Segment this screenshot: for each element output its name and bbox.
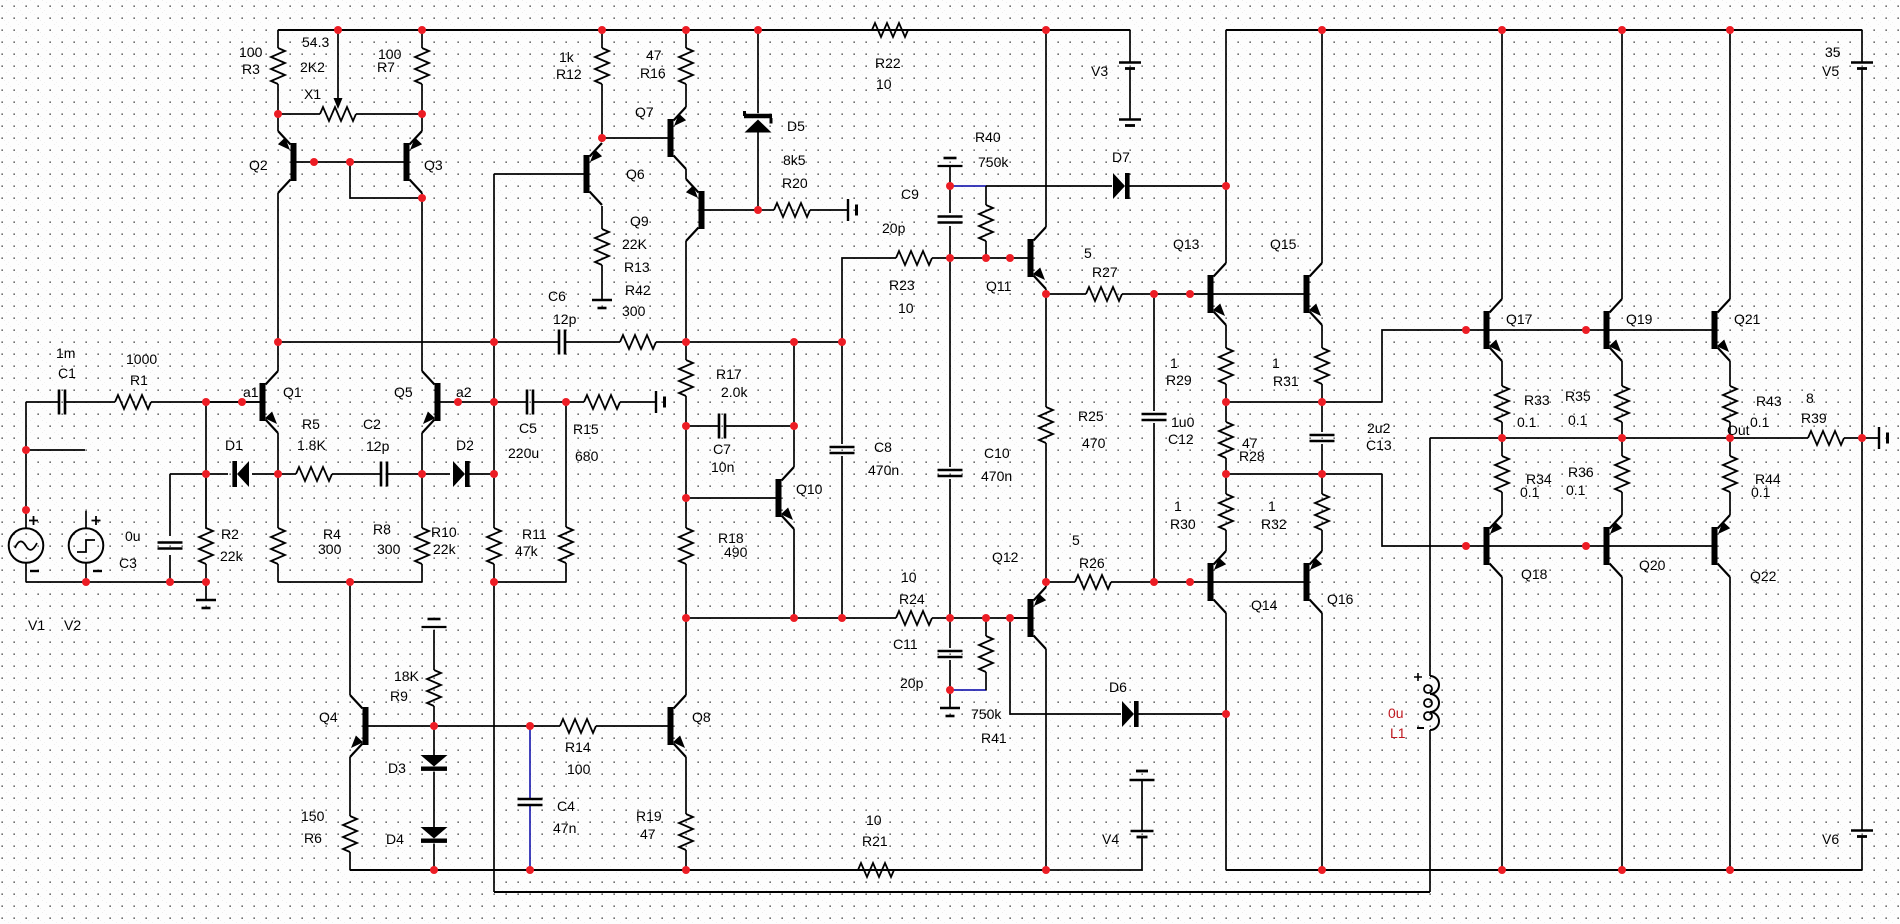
wire R15 right lead: [620, 401, 656, 403]
resistor R32: [1315, 494, 1329, 530]
wire RE top 2 to out rail: [1621, 422, 1623, 438]
resistor R25: [1039, 407, 1053, 443]
wire Q12 base: [1010, 617, 1028, 619]
wire Q6 base horizontal: [494, 173, 584, 175]
wire R42 to node: [656, 341, 686, 343]
node junction at 278,342: [274, 338, 282, 346]
svg-text:R14: R14: [565, 739, 591, 755]
wire Q11 emitter to R27: [1046, 293, 1086, 295]
svg-text:D1: D1: [225, 437, 243, 453]
node junction at 1226,402: [1222, 398, 1230, 406]
capacitor C12: [1142, 414, 1167, 420]
node junction at 1622,870: [1618, 866, 1626, 874]
node junction at 686,426: [682, 422, 690, 430]
node junction at 494,402: [490, 398, 498, 406]
wire blue link C9 to R40: [950, 185, 986, 187]
capacitor C13: [1310, 435, 1335, 441]
node junction at 530,726: [526, 722, 534, 730]
wire output emitter 1 to RE: [1501, 361, 1503, 386]
svg-text:100: 100: [239, 44, 263, 60]
capacitor C8: [830, 447, 855, 453]
svg-text:22k: 22k: [433, 541, 457, 557]
wire tail down to Q4: [349, 582, 351, 695]
resistor R11 right body: [559, 527, 573, 563]
svg-text:C2: C2: [363, 416, 381, 432]
svg-text:Q14: Q14: [1251, 597, 1278, 613]
node junction at 350,582: [346, 578, 354, 586]
svg-text:C3: C3: [119, 555, 137, 571]
wire C6 left lead: [494, 341, 559, 343]
svg-text:8k5: 8k5: [783, 152, 806, 168]
wire VAS node to R23 corner: [686, 341, 842, 343]
wire column 494 down: [493, 342, 495, 474]
wire C11 lower lead: [949, 660, 951, 690]
wire V2 minus lead: [85, 563, 87, 582]
wire C1 to R1: [65, 401, 115, 403]
wire right supply column lower: [1861, 438, 1863, 830]
resistor R7: [415, 48, 429, 84]
node junction at 1622,30: [1618, 26, 1626, 34]
wire R16 to Q7 emitter: [685, 84, 687, 107]
svg-text:10: 10: [901, 569, 917, 585]
wire V4 upper lead: [1141, 780, 1143, 831]
svg-text:22K: 22K: [622, 236, 648, 252]
svg-text:C1: C1: [58, 365, 76, 381]
wire R7 top lead: [421, 30, 423, 48]
svg-text:V4: V4: [1102, 831, 1119, 847]
svg-text:C6: C6: [548, 288, 566, 304]
svg-text:Q3: Q3: [424, 157, 443, 173]
svg-text:20p: 20p: [900, 675, 924, 691]
wire R18 bottom lead: [685, 564, 687, 618]
wire a2 to C5: [494, 401, 527, 403]
node junction at 842,342: [838, 338, 846, 346]
svg-text:D5: D5: [787, 118, 805, 134]
capacitor C3: [158, 543, 183, 549]
svg-text:2.0k: 2.0k: [721, 384, 748, 400]
transistor Q15: [1304, 263, 1323, 325]
wire D3 top lead: [433, 726, 435, 755]
wire R11b top lead: [565, 402, 567, 527]
wire R17 top lead: [685, 342, 687, 360]
resistor R15: [584, 395, 620, 409]
svg-text:R15: R15: [573, 421, 599, 437]
svg-text:R27: R27: [1092, 264, 1118, 280]
svg-text:C5: C5: [519, 420, 537, 436]
wire R40 top lead: [985, 186, 987, 205]
svg-text:C13: C13: [1366, 437, 1392, 453]
wire C9 top lead: [949, 167, 951, 213]
svg-text:8: 8: [1806, 390, 1814, 406]
resistor R4: [271, 528, 285, 564]
node junction at 434,726: [430, 722, 438, 730]
wire R11b bottom lead: [565, 563, 567, 582]
wire C7 left lead: [686, 425, 719, 427]
wire C7 node down: [793, 342, 795, 426]
node junction at 1154,582: [1150, 578, 1158, 586]
svg-text:a2: a2: [456, 384, 472, 400]
svg-text:750k: 750k: [971, 706, 1002, 722]
ground below R2: [196, 582, 216, 608]
transistor Q19: [1604, 299, 1623, 361]
wire rail1 R21 right lead: [894, 869, 1046, 871]
node junction at 458,402: [454, 398, 462, 406]
wire R11 bottom tie: [494, 581, 566, 583]
svg-text:a1: a1: [243, 384, 259, 400]
wire C7 right lead: [725, 425, 794, 427]
capacitor C10: [938, 470, 963, 476]
wire bottom rail 2: [494, 891, 1430, 893]
resistor R10: [415, 528, 429, 564]
wire R32 bottom lead: [1321, 530, 1323, 551]
svg-text:R30: R30: [1170, 516, 1196, 532]
rail tap above R9: [422, 619, 447, 627]
diode D3: [421, 755, 448, 771]
wire RE bottom 3 from out rail: [1729, 438, 1731, 456]
svg-text:V3: V3: [1091, 63, 1108, 79]
svg-text:470n: 470n: [868, 462, 899, 478]
node junction at 1322,402: [1318, 398, 1326, 406]
wire right supply column upper: [1861, 68, 1863, 438]
wire RE top 1 to out rail: [1501, 422, 1503, 438]
node junction at 758,210: [754, 206, 762, 214]
svg-text:V6: V6: [1822, 831, 1839, 847]
wire C10 lower lead: [949, 479, 951, 618]
svg-text:R36: R36: [1568, 464, 1594, 480]
svg-text:D2: D2: [456, 437, 474, 453]
battery V5: [1851, 63, 1873, 69]
wire Q10 emitter down: [793, 529, 795, 618]
transistor Q13: [1208, 263, 1227, 325]
node junction at 350,162: [346, 158, 354, 166]
resistor R23: [896, 251, 932, 265]
svg-text:750k: 750k: [978, 154, 1009, 170]
wire Q8 emitter to R19: [685, 757, 687, 814]
svg-text:D7: D7: [1112, 149, 1130, 165]
transistor Q16: [1304, 551, 1323, 613]
svg-text:1: 1: [1170, 355, 1178, 371]
resistor R17: [679, 360, 693, 396]
wire node474 row: [1226, 473, 1382, 475]
resistor R13: [595, 229, 609, 265]
node junction at 278,114: [274, 110, 282, 118]
wire output collector column 2 to rail: [1621, 30, 1623, 299]
svg-text:2u2: 2u2: [1367, 420, 1391, 436]
wire Q4 emitter down: [349, 757, 351, 816]
wire R30 top lead: [1225, 474, 1227, 494]
diode D4: [421, 827, 448, 843]
wire R17 bottom lead: [685, 396, 687, 426]
wire bottom rail 1: [350, 869, 1046, 871]
svg-text:Q21: Q21: [1734, 311, 1761, 327]
node junction at 950,186: [946, 182, 954, 190]
transistor Q12: [1028, 587, 1047, 649]
svg-text:Q13: Q13: [1173, 236, 1200, 252]
wire RE2 3 to lower emitter: [1729, 492, 1731, 515]
wire Q10 collector up: [793, 426, 795, 467]
wire R30 bottom lead: [1225, 530, 1227, 551]
svg-text:2K2: 2K2: [300, 59, 325, 75]
node junction at 1730,438: [1726, 434, 1734, 442]
wire C11 upper lead: [949, 618, 951, 648]
wire Q7 collector to Q9 emitter: [685, 169, 687, 179]
resistor R42: [620, 335, 656, 349]
wire X1 left node to R3: [277, 84, 279, 114]
wire R6 bottom corner: [349, 852, 351, 870]
wire Q16 collector down: [1321, 613, 1323, 870]
zener diode D5: [744, 111, 772, 133]
wire R41 bottom lead: [985, 672, 987, 690]
node junction at 422,30: [418, 26, 426, 34]
node junction at 1046,294: [1042, 290, 1050, 298]
svg-text:Q6: Q6: [626, 166, 645, 182]
node junction at 1586,330: [1582, 326, 1590, 334]
wire R9 bottom lead: [433, 706, 435, 726]
node junction at 422,114: [418, 110, 426, 118]
node junction at 314,162: [310, 158, 318, 166]
wire top positive rail left: [278, 29, 1130, 31]
svg-text:V1: V1: [28, 617, 45, 633]
svg-text:R8: R8: [373, 521, 391, 537]
transistor Q5: [422, 371, 441, 433]
wire Q1 base: [206, 401, 260, 403]
node junction at 1010,618: [1006, 614, 1014, 622]
wire Q5 emitter down: [421, 433, 423, 474]
wire X1 right node to R7: [421, 84, 423, 114]
wire output emitter 3 to RE: [1729, 361, 1731, 386]
wire Q5 base: [441, 401, 495, 403]
svg-text:Q12: Q12: [992, 549, 1019, 565]
wire R20 left lead: [758, 209, 774, 211]
wire Q13 emitter to R29: [1225, 325, 1227, 348]
wire Q14 collector down: [1225, 613, 1227, 714]
svg-text:R3: R3: [242, 61, 260, 77]
wire R29 bottom lead: [1225, 384, 1227, 402]
svg-text:150: 150: [301, 808, 325, 824]
wire lower collector 2 to rail: [1621, 577, 1623, 870]
node junction at 434,870: [430, 866, 438, 874]
wire R27 to driver bases: [1122, 293, 1304, 295]
wire output collector column 3 to rail: [1729, 30, 1731, 299]
svg-text:10n: 10n: [711, 459, 734, 475]
wire D6 to Q14 collector: [1138, 713, 1226, 715]
svg-text:R23: R23: [889, 277, 915, 293]
transistor Q4: [350, 695, 369, 757]
node junction at 206,582: [202, 578, 210, 586]
resistor R43: [1723, 386, 1737, 422]
svg-text:R9: R9: [390, 688, 408, 704]
node junction at 494,582: [490, 578, 498, 586]
wire RE2 2 to lower emitter: [1621, 492, 1623, 515]
svg-text:18K: 18K: [394, 668, 420, 684]
wire D5 top lead: [757, 30, 759, 113]
wire C8 bottom lead: [841, 456, 843, 618]
node junction at 494,342: [490, 338, 498, 346]
wire R25 top lead: [1045, 294, 1047, 407]
node junction at 986,618: [982, 614, 990, 622]
wire output emitter 2 to RE: [1621, 361, 1623, 386]
node junction at 1154,294: [1150, 290, 1158, 298]
wire Q9 collector down: [685, 241, 687, 342]
svg-text:Q17: Q17: [1506, 311, 1533, 327]
wire R31 bottom lead: [1321, 384, 1323, 402]
svg-text:R31: R31: [1273, 373, 1299, 389]
inductor L1: [1414, 673, 1439, 730]
svg-text:Q20: Q20: [1639, 557, 1666, 573]
wire Q2 collector down: [277, 193, 279, 342]
svg-text:0.1: 0.1: [1750, 414, 1770, 430]
node junction at 278,474: [274, 470, 282, 478]
terminal after R20: [848, 199, 857, 221]
battery V4: [1130, 771, 1155, 837]
svg-text:C12: C12: [1168, 431, 1194, 447]
transistor Q21: [1712, 299, 1731, 361]
capacitor C6: [559, 330, 565, 355]
svg-text:Q11: Q11: [986, 278, 1012, 294]
svg-text:R1: R1: [130, 372, 148, 388]
node junction at 86,582: [82, 578, 90, 586]
node junction at 1502,438: [1498, 434, 1506, 442]
wire V5 top lead: [1861, 30, 1863, 62]
wire Q13 collector column: [1225, 30, 1227, 263]
node junction at 422,474: [418, 470, 426, 478]
node junction at 1226,186: [1222, 182, 1230, 190]
svg-text:Out: Out: [1727, 422, 1750, 438]
wire node402 row: [1226, 401, 1382, 403]
node junction at 686,870: [682, 866, 690, 874]
wire Q3 emitter up: [421, 114, 423, 131]
transistor Q8: [668, 695, 687, 757]
svg-text:R22: R22: [875, 55, 901, 71]
wiper arrowhead of potentiometer X1: [334, 98, 343, 109]
resistor R22 on rail: [872, 23, 908, 37]
wire open stub at input: [26, 449, 85, 451]
node junction at 1730,870: [1726, 866, 1734, 874]
node junction at 26,450: [22, 446, 30, 454]
svg-text:R33: R33: [1524, 392, 1550, 408]
node junction at 602,138: [598, 134, 606, 142]
transistor Q17: [1484, 299, 1503, 361]
node junction at 1730,30: [1726, 26, 1734, 34]
wire Q4 base: [369, 725, 435, 727]
wire output node row: [1430, 437, 1808, 439]
resistor R40: [979, 205, 993, 241]
node junction at 794,618: [790, 614, 798, 622]
svg-text:R29: R29: [1166, 372, 1192, 388]
node junction at 686,498: [682, 494, 690, 502]
svg-text:R40: R40: [975, 129, 1001, 145]
resistor R6: [343, 816, 357, 852]
wire R41 top lead: [985, 618, 987, 636]
svg-text:R12: R12: [556, 66, 582, 82]
transistor Q7: [668, 107, 687, 169]
resistor R39: [1808, 431, 1844, 445]
svg-text:Q4: Q4: [319, 709, 338, 725]
wire D1 left lead: [206, 473, 228, 475]
resistor R9: [427, 670, 441, 706]
svg-text:L1: L1: [1390, 725, 1406, 741]
svg-text:1m: 1m: [56, 345, 75, 361]
svg-text:10: 10: [876, 76, 892, 92]
resistor R24: [896, 611, 932, 625]
wire R12 top lead: [601, 30, 603, 48]
svg-text:R24: R24: [899, 591, 925, 607]
wire C3 column lower: [169, 555, 171, 582]
svg-text:Q16: Q16: [1327, 591, 1354, 607]
node junction at 1322,870: [1318, 866, 1326, 874]
resistor R29: [1219, 348, 1233, 384]
wire R12 to Q7 base node: [601, 84, 603, 138]
resistor R12: [595, 48, 609, 84]
wire output collector column 1 to rail: [1501, 30, 1503, 299]
node junction at 986,258: [982, 254, 990, 262]
wire bias spreader column top: [433, 630, 435, 670]
wire R25 bottom lead: [1045, 443, 1047, 587]
svg-text:Q7: Q7: [635, 104, 654, 120]
node junction at 26,510: [22, 506, 30, 514]
node junction at 338,30: [334, 26, 342, 34]
svg-text:300: 300: [318, 541, 342, 557]
svg-text:10: 10: [866, 812, 882, 828]
transistor Q9: [686, 179, 705, 241]
svg-text:Q15: Q15: [1270, 236, 1297, 252]
svg-text:680: 680: [575, 448, 599, 464]
resistor R11 left body: [487, 528, 501, 564]
wire X1 right lead: [356, 113, 422, 115]
svg-text:R5: R5: [302, 416, 320, 432]
node junction at 842,618: [838, 614, 846, 622]
wire column 1010 down to D6: [1010, 618, 1121, 714]
svg-text:C10: C10: [984, 445, 1010, 461]
svg-text:0u: 0u: [125, 528, 141, 544]
wire R39 right lead: [1844, 437, 1879, 439]
wire C4 upper blue: [529, 728, 531, 798]
wire Q15 emitter to R31: [1321, 325, 1323, 348]
node junction at 950,690: [946, 686, 954, 694]
svg-text:220u: 220u: [508, 445, 539, 461]
svg-text:D6: D6: [1109, 679, 1127, 695]
wire V3 lead from rail: [1129, 30, 1131, 62]
svg-text:35: 35: [1825, 44, 1841, 60]
capacitor C5: [527, 390, 533, 415]
wire Q14 collector to rail3: [1225, 714, 1227, 870]
wire column 686 to Q10 base node: [685, 426, 687, 498]
wire V4 bottom lead: [1046, 837, 1142, 870]
battery V6: [1851, 831, 1873, 837]
svg-text:C7: C7: [713, 441, 731, 457]
svg-text:V2: V2: [64, 617, 81, 633]
svg-text:1u0: 1u0: [1171, 414, 1195, 430]
resistor R26: [1075, 575, 1111, 589]
svg-text:0.1: 0.1: [1520, 484, 1540, 500]
svg-text:R17: R17: [716, 366, 742, 382]
wire zener node to D7: [986, 185, 1112, 187]
svg-text:R10: R10: [431, 524, 457, 540]
svg-text:Q19: Q19: [1626, 311, 1653, 327]
svg-text:47: 47: [646, 47, 662, 63]
resistor R34: [1495, 456, 1509, 492]
wire R4 R10 bottom tie: [278, 581, 422, 583]
capacitor C7: [719, 414, 725, 439]
wire RE top 3 to out rail: [1729, 422, 1731, 438]
diode D7: [1113, 173, 1130, 199]
svg-text:D3: D3: [388, 760, 406, 776]
svg-text:Q18: Q18: [1521, 566, 1548, 582]
terminal after R15: [656, 391, 665, 413]
wire Q6 emitter up: [601, 138, 603, 142]
node junction at 1046,582: [1042, 578, 1050, 586]
node junction at 1226,714: [1222, 710, 1230, 718]
